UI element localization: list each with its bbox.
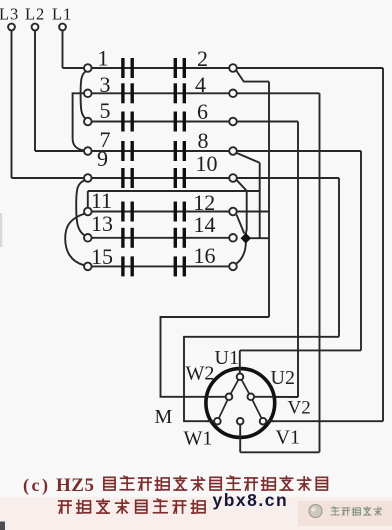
caption line1 cjk	[104, 477, 115, 490]
terminal L2	[32, 24, 39, 31]
motor terminal U1	[237, 374, 244, 381]
svg-text:6: 6	[197, 99, 208, 124]
winding U1-U2	[240, 377, 251, 397]
wire bus A x269	[268, 82, 270, 317]
junction diamond	[241, 234, 250, 243]
motor M frame	[206, 369, 275, 438]
svg-text:L: L	[25, 5, 35, 24]
wire L3 lead	[11, 30, 13, 178]
wire arm 8	[237, 153, 260, 163]
svg-text:8: 8	[198, 128, 209, 153]
terminal 15	[84, 263, 92, 271]
corner mark	[0, 522, 5, 530]
svg-text:2: 2	[197, 46, 208, 71]
svg-text:ybx8.cn: ybx8.cn	[213, 490, 289, 510]
svg-text:M: M	[155, 406, 173, 428]
wire row 11-12	[88, 211, 233, 213]
wire bus 191	[88, 190, 260, 192]
wire row8 ext	[237, 150, 361, 152]
terminal 5	[84, 118, 92, 126]
wire bus C x319	[319, 93, 321, 452]
winding U1-W2	[229, 377, 240, 397]
wire to V1	[240, 451, 319, 453]
wire to W1	[184, 337, 339, 421]
svg-text:U2: U2	[271, 367, 295, 389]
svg-text:L: L	[0, 5, 9, 24]
wire U2 inside	[254, 396, 274, 398]
switch contacts row 9-10	[121, 168, 186, 188]
wire bus D x339	[338, 178, 340, 337]
wire 11 riser	[87, 191, 89, 208]
wire to W2	[161, 317, 270, 397]
wire W1 inside	[207, 420, 215, 422]
terminal 8	[229, 147, 237, 155]
svg-text:9: 9	[97, 146, 108, 171]
svg-text:U1: U1	[215, 347, 239, 369]
terminal 16	[229, 263, 237, 271]
wire row6 ext	[237, 121, 298, 123]
wire row 9-10	[88, 177, 233, 179]
svg-text:1: 1	[63, 5, 71, 24]
motor terminal W1	[214, 418, 221, 425]
wire row 3-4	[88, 92, 233, 94]
wire V2 inside	[263, 420, 274, 422]
wire row3 ext	[237, 92, 320, 94]
wire row 15-16	[88, 265, 233, 267]
wire to U2	[254, 396, 298, 398]
wire bus E x361	[360, 151, 362, 350]
wire to U1	[240, 349, 361, 351]
wire drop x246	[245, 191, 248, 234]
terminal 9	[84, 174, 92, 182]
winding U2-V2	[251, 397, 263, 421]
caption line2 cjk	[59, 501, 71, 513]
terminal 3	[84, 90, 92, 98]
terminal L1	[59, 24, 66, 31]
switch contacts row 15-16	[121, 256, 186, 276]
switch contacts row 1-2	[121, 58, 186, 78]
motor terminal V2	[260, 418, 267, 425]
wire arm 16	[237, 243, 246, 264]
terminal 13	[84, 234, 92, 242]
wire link 3-7	[73, 93, 85, 150]
wire diamond-busA	[250, 237, 269, 239]
wire row10 ext	[237, 177, 339, 179]
wire L1 lead	[62, 30, 64, 68]
wire link 11-15	[65, 214, 84, 266]
wire arm 10	[236, 180, 246, 191]
svg-text:V2: V2	[288, 398, 311, 419]
svg-text:HZ5: HZ5	[56, 475, 94, 496]
terminal 14	[229, 234, 237, 242]
switch contacts row 5-6	[121, 112, 186, 132]
switch contacts row 13-14	[121, 228, 186, 248]
terminal L3	[8, 24, 15, 31]
svg-text:(c): (c)	[23, 475, 50, 496]
wire bus B x298	[297, 122, 299, 398]
wire to V2	[266, 420, 383, 422]
svg-text:14: 14	[194, 212, 216, 237]
wire L2 lead	[34, 30, 36, 151]
terminal 6	[229, 118, 237, 126]
edge artifact	[0, 213, 2, 247]
svg-text:W2: W2	[186, 363, 215, 385]
wire drop x259	[259, 163, 261, 238]
wire U1 stem	[239, 350, 241, 374]
svg-text:3: 3	[100, 72, 111, 97]
terminal 10	[229, 174, 237, 182]
svg-text:16: 16	[194, 243, 216, 268]
svg-text:10: 10	[196, 151, 218, 176]
motor terminal V1c	[237, 418, 244, 425]
wire V1 stem	[239, 421, 241, 452]
terminal 4	[229, 90, 237, 98]
svg-text:3: 3	[10, 5, 18, 24]
wire link 1-5	[81, 71, 87, 119]
wire link 9-13	[76, 180, 84, 235]
terminal 11	[84, 208, 92, 216]
svg-text:1: 1	[98, 46, 109, 71]
wire row 1-2	[88, 67, 233, 69]
terminal 12	[229, 208, 237, 216]
terminal 2	[229, 64, 237, 72]
wire W2 inside	[207, 396, 227, 398]
terminal 1	[84, 64, 92, 72]
motor terminal U2	[248, 394, 255, 401]
svg-text:L: L	[52, 5, 62, 24]
wire bus F x383	[382, 68, 384, 421]
svg-text:2: 2	[36, 5, 44, 24]
svg-text:15: 15	[91, 244, 113, 269]
svg-text:5: 5	[100, 98, 111, 123]
wire arm 2	[236, 71, 269, 82]
badge text	[331, 507, 339, 515]
switch contacts row 7-8	[121, 141, 186, 161]
winding W2-W1	[217, 397, 229, 421]
badge icon	[309, 505, 322, 518]
wire arm 12	[237, 215, 245, 234]
motor terminal W2	[226, 394, 233, 401]
switch contacts row 11-12	[121, 202, 186, 222]
wire row 5-6	[88, 121, 233, 123]
wire row1 ext	[237, 67, 383, 69]
svg-text:4: 4	[195, 72, 206, 97]
wire row12 ext	[237, 211, 269, 213]
svg-text:W1: W1	[184, 428, 213, 450]
wire row 13-14	[88, 237, 233, 239]
svg-text:13: 13	[91, 211, 113, 236]
switch contacts row 3-4	[121, 83, 186, 103]
svg-text:V1: V1	[276, 427, 300, 449]
terminal 7	[84, 147, 92, 155]
wire row 7-8	[88, 150, 233, 152]
